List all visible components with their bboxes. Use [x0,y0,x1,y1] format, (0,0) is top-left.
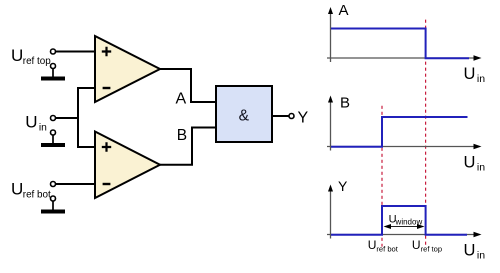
node A label [176,91,187,108]
label U_ref top (axis) [412,238,442,254]
terminal U_ref top [51,49,56,54]
label U_ref bot [11,180,51,201]
wire B: U2 output to AND gate [159,128,216,165]
terminal U_ref bot [51,182,56,187]
graph A label [339,2,349,19]
label U_window [389,214,423,227]
svg-text:A: A [339,2,349,19]
ground for U_ref top [41,64,65,81]
graph B vertical axis [328,96,333,151]
graph A vertical axis [328,7,333,62]
svg-text:Y: Y [298,110,309,127]
terminal U_in [51,116,56,121]
graph Y label [338,178,348,194]
graph Y vertical axis [328,185,333,239]
ground for U_in [41,130,65,147]
op-amp U2 [95,132,160,199]
graph Y horizontal axis [327,232,482,238]
ground for U_ref bot [41,196,65,214]
wire branch to U2 + input [77,146,95,148]
AND gate U3 [216,86,272,142]
U_window dimension arrow [384,224,425,229]
label U_in [25,113,47,134]
graph A axis label U_in [464,65,486,85]
wire U_ref bot to op-amp U2 - input [56,183,96,185]
red dashed line U_ref bot [381,106,383,247]
graph B trace [331,117,468,147]
label U_ref bot (axis) [368,238,399,254]
svg-text:A: A [176,91,187,108]
graph B label [340,94,350,111]
graph Y trace [331,206,467,235]
svg-text:Y: Y [338,178,348,194]
terminal Y [289,114,294,119]
op-amp U1 [95,36,160,102]
graph B axis label U_in [464,154,486,174]
graph B horizontal axis [327,144,482,150]
graph A horizontal axis [327,55,482,61]
svg-text:&: & [239,108,250,125]
wire A: U1 output to AND gate [159,69,216,102]
graph A trace [331,29,469,59]
red dashed line U_ref top [425,20,427,247]
wire U_in to branch node [56,117,79,119]
wire Y: AND gate output [272,115,289,117]
svg-text:B: B [177,127,187,144]
wire branch to U1 - input [77,87,95,89]
graph Y axis label U_in [464,242,486,262]
node Y label [298,110,309,127]
node B label [177,127,187,144]
wire U_ref top to op-amp U1 + input [56,51,96,53]
svg-text:B: B [340,94,350,111]
wire branch vertical [77,87,79,148]
label U_ref top [11,46,51,67]
